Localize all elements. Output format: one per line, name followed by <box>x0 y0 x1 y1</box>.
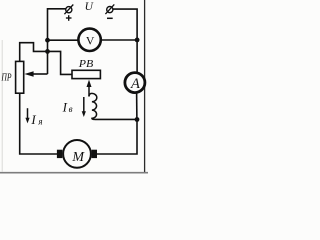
wire ammeter to junction <box>136 92 138 120</box>
rheostat PB (field rheostat) <box>72 70 100 78</box>
wire - feed: to right bus top <box>113 9 137 40</box>
svg-text:ПР: ПР <box>1 72 12 83</box>
wire voltmeter right <box>101 39 138 41</box>
svg-text:I: I <box>62 100 68 115</box>
label + <box>66 15 72 21</box>
wire right bus to ammeter <box>136 40 138 74</box>
wire field coil bottom to right bus <box>95 118 138 120</box>
wire PR top jog to node <box>20 43 48 62</box>
wire PR wiper arrow <box>24 71 47 77</box>
junction node D (right bus / field coil) <box>135 117 140 122</box>
motor brush right <box>92 150 97 158</box>
junction node B (bus / field branch) <box>45 49 50 54</box>
motor M <box>63 140 91 168</box>
junction node A (bus / voltmeter tap) <box>45 38 50 43</box>
svg-text:I: I <box>30 112 36 127</box>
rheostat PR (starting rheostat) <box>16 61 24 93</box>
terminal - <box>105 4 114 14</box>
label Iya with current arrow <box>25 108 42 127</box>
junction node C (right bus / voltmeter) <box>135 38 140 43</box>
wire PR bottom / left bus to motor left brush <box>20 93 57 154</box>
svg-text:U: U <box>85 1 94 13</box>
label - <box>107 17 113 19</box>
svg-text:M: M <box>71 150 85 165</box>
wire PB wiper arrow to coil <box>87 80 92 97</box>
wire right bus to motor right brush <box>97 120 137 154</box>
svg-text:в: в <box>69 104 73 114</box>
label Iv with current arrow <box>62 97 86 117</box>
ammeter A <box>125 73 145 93</box>
svg-text:A: A <box>130 76 140 92</box>
svg-text:РВ: РВ <box>78 58 94 70</box>
svg-text:V: V <box>86 33 95 47</box>
svg-text:я: я <box>37 116 42 126</box>
voltmeter V <box>78 29 100 51</box>
inductor field winding coil <box>89 93 97 119</box>
wire node to PB left terminal <box>48 51 73 74</box>
motor brush left <box>57 150 62 158</box>
wire voltmeter left <box>48 39 80 41</box>
wire + feed: top lead and left bus down to PR wiper <box>48 9 66 74</box>
terminal + <box>64 5 73 15</box>
